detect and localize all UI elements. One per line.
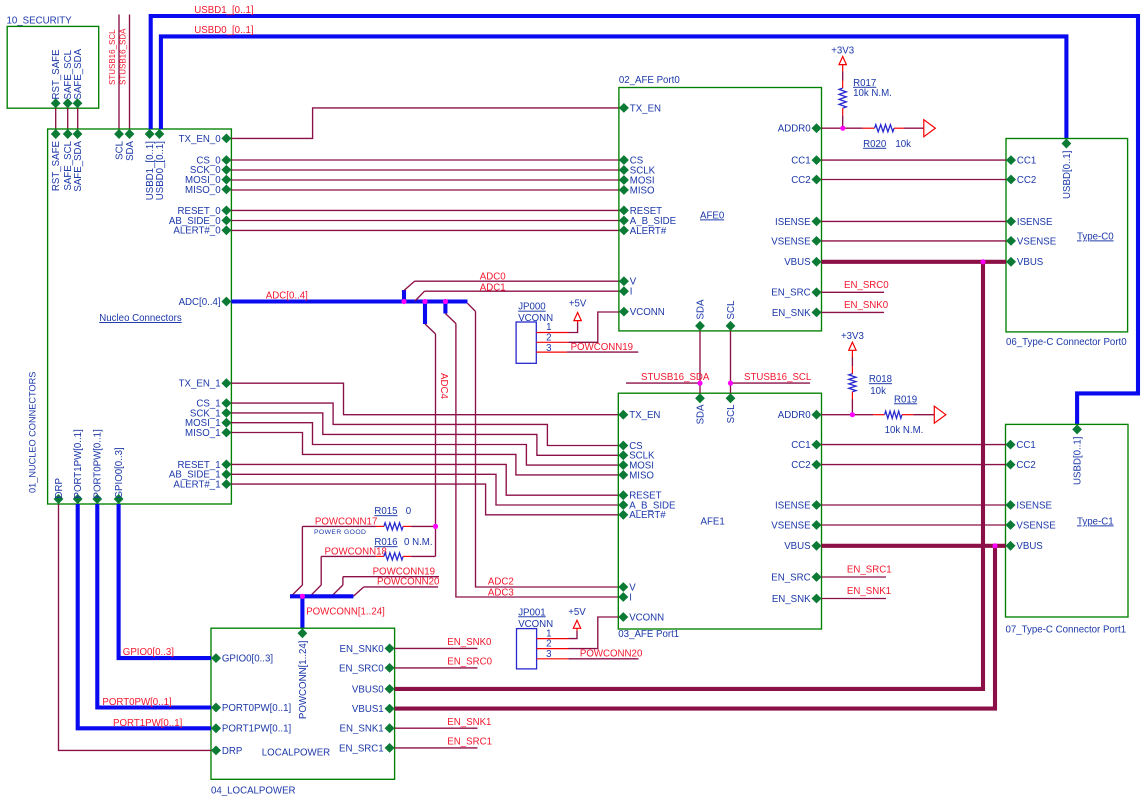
- pin name I (AFE1 left): [629, 592, 632, 603]
- svg-text:CC1: CC1: [791, 440, 810, 451]
- junction POWCONN bus: [300, 594, 305, 599]
- junction ADC4 on bus: [422, 299, 427, 304]
- pin 1 R015: [376, 525, 384, 527]
- pin name MOSI (AFE1 left): [629, 461, 654, 472]
- svg-text:USBD[0..1]: USBD[0..1]: [1062, 151, 1073, 199]
- bus entry ADC0: [404, 281, 415, 290]
- pin 2 R018: [851, 392, 853, 399]
- pin name AB_SIDE_1 (NUCLEO right): [169, 470, 221, 481]
- sheet pin RESET (AFE0 left): [619, 206, 629, 216]
- pin name ISENSE (AFE1 right): [775, 500, 811, 511]
- svg-text:GPIO0[0..3]: GPIO0[0..3]: [114, 447, 125, 498]
- sheet pin EN_SRC (AFE0 right): [812, 287, 822, 297]
- net label ADC1: [480, 283, 506, 294]
- pin name ALERT#_0 (NUCLEO right): [173, 226, 221, 237]
- sheet bus pin POWCONN[1..24] (LOCALPOWER top): [298, 628, 308, 638]
- value 10k (R018): [870, 386, 886, 397]
- wire AB_SIDE_0: [231, 220, 619, 222]
- value 10k (R020): [895, 139, 911, 150]
- svg-text:02_AFE Port0: 02_AFE Port0: [619, 75, 680, 86]
- bus label PORT1PW[0..1]: [113, 718, 182, 729]
- sheet pin MISO (AFE0 left): [619, 185, 629, 195]
- no-connect flag (R020): [924, 120, 936, 137]
- sheet name 10_SECURITY: [7, 15, 73, 26]
- pin name USBD1_[0..1] (NUCLEO top): [145, 141, 156, 200]
- pin name EN_SNK (AFE1 right): [772, 594, 811, 605]
- sheet pin TX_EN_0 (NUCLEO right): [221, 134, 231, 144]
- sheet pin SCL (AFE1 top): [726, 393, 736, 403]
- pin 2 R017: [842, 108, 844, 115]
- value 0 (R015): [406, 506, 412, 517]
- text POWER GOOD: [314, 529, 366, 536]
- net label POWCONN19 (JP000): [571, 342, 633, 353]
- sheet pin VSENSE (AFE0 right): [812, 236, 822, 246]
- sheet name 07_Type-C Connector Port1: [1006, 625, 1127, 636]
- pin name RESET (AFE1 left): [629, 491, 661, 502]
- sheet pin PORT1PW[0..1] (LOCALPOWER left): [211, 723, 221, 733]
- svg-text:VBUS: VBUS: [784, 257, 811, 268]
- power label +3V3 (R017): [831, 45, 854, 56]
- pin name USBD[0..1] (Type-C1 top): [1073, 437, 1084, 485]
- sheet pin V (AFE0 left): [619, 276, 629, 286]
- pin name CC1 (AFE1 right): [791, 440, 810, 451]
- sheet pin ADC[0..4] (NUCLEO right): [221, 297, 231, 307]
- pin 1 R020: [862, 127, 874, 129]
- bus stub ADC0: [402, 290, 406, 302]
- sheet pin CS (AFE1 left): [618, 441, 628, 451]
- svg-text:CC1: CC1: [1016, 440, 1035, 451]
- pin name VSENSE (AFE1 right): [771, 520, 811, 531]
- ref R020: [863, 139, 887, 150]
- svg-text:+5V: +5V: [569, 299, 587, 310]
- pin name PORT0PW[0..1] (LOCALPOWER left): [222, 703, 291, 714]
- ref JP001: [518, 607, 545, 618]
- sheet file Type-C1: [1077, 516, 1114, 527]
- pin name CC2 (AFE1 right): [791, 460, 810, 471]
- sheet pin VBUS (Type-C1 left): [1006, 541, 1016, 551]
- pin name TX_EN_0 (NUCLEO right): [179, 134, 222, 145]
- svg-text:POWCONN17: POWCONN17: [315, 516, 377, 527]
- wire VBUS1 (LOCALPOWER): [395, 546, 995, 709]
- svg-text:PORT1PW[0..1]: PORT1PW[0..1]: [222, 724, 291, 735]
- sheet pin SDA (AFE1 top): [695, 393, 705, 403]
- svg-text:Type-C1: Type-C1: [1077, 516, 1114, 527]
- ref JP000: [518, 302, 546, 313]
- svg-text:SCL: SCL: [726, 300, 737, 319]
- wire ADDR0 (AFE0): [822, 127, 863, 129]
- sheet pin CC1 (AFE1 right): [812, 440, 822, 450]
- svg-text:AFE0: AFE0: [700, 210, 725, 221]
- body JP001: [517, 629, 537, 669]
- bus POWCONN[1..24] drop: [300, 596, 304, 628]
- wire EN_SRC1 (LOCALPOWER): [395, 747, 478, 749]
- wire STUSB16_SDA label stub: [626, 382, 700, 384]
- junction ADDR0/R017/R020: [840, 126, 845, 131]
- svg-text:VBUS: VBUS: [1017, 257, 1044, 268]
- pin name VCONN (AFE0 left): [630, 307, 665, 318]
- svg-text:CC2: CC2: [791, 175, 810, 186]
- net label POWCONN20 (JP001): [580, 649, 643, 660]
- svg-text:VBUS: VBUS: [1016, 541, 1043, 552]
- svg-text:ISENSE: ISENSE: [775, 500, 811, 511]
- wire POWCONN20 stub: [364, 586, 438, 588]
- svg-text:VBUS1: VBUS1: [352, 704, 384, 715]
- sheet pin CC2 (Type-C0 left): [1006, 175, 1016, 185]
- pin name EN_SRC1 (LOCALPOWER right): [339, 743, 384, 754]
- svg-text:ADDR0: ADDR0: [778, 410, 811, 421]
- power arrow +3V3 (R018): [849, 342, 856, 350]
- wire DRP: [59, 504, 212, 750]
- junction VBUS1: [992, 543, 997, 548]
- pin name PORT1PW[0..1] (LOCALPOWER left): [222, 724, 291, 735]
- wire SCK_0: [231, 169, 619, 171]
- sheet pin ALERT# (AFE1 left): [618, 510, 628, 520]
- wire EN_SRC (AFE0): [822, 291, 885, 293]
- pin number 2 (JP000): [546, 332, 551, 343]
- svg-text:VBUS0: VBUS0: [352, 684, 384, 695]
- net label EN_SRC1 (AFE1): [847, 565, 892, 576]
- bus entry POWCONN18: [310, 585, 321, 596]
- power pin +3V3 (R017): [842, 65, 844, 72]
- wire POWCONN18 drop: [320, 556, 322, 585]
- junction STUSB16_SCL: [728, 381, 733, 386]
- svg-text:MISO_0: MISO_0: [185, 185, 221, 196]
- svg-text:EN_SRC1: EN_SRC1: [339, 743, 384, 754]
- bus GPIO0[0..3]: [119, 504, 211, 658]
- sheet pin EN_SRC (AFE1 right): [812, 572, 822, 582]
- pin name DRP (NUCLEO bottom): [54, 478, 65, 498]
- svg-text:10_SECURITY: 10_SECURITY: [7, 15, 73, 26]
- bus entry POWCONN17: [291, 585, 302, 596]
- ref R016: [374, 537, 397, 548]
- wire TX_EN_0: [231, 108, 619, 138]
- svg-text:RST_SAFE: RST_SAFE: [51, 140, 62, 191]
- pin name VBUS1 (LOCALPOWER right): [352, 704, 384, 715]
- svg-text:04_LOCALPOWER: 04_LOCALPOWER: [211, 786, 296, 797]
- pin name V (AFE1 left): [629, 582, 636, 593]
- pin name V (AFE0 left): [630, 277, 637, 288]
- svg-text:ADC0: ADC0: [480, 272, 506, 283]
- pin name RESET_0 (NUCLEO right): [178, 206, 222, 217]
- sheet pin VCONN (AFE1 left): [618, 612, 628, 622]
- svg-text:DRP: DRP: [222, 746, 242, 757]
- pin name EN_SRC (AFE0 right): [771, 288, 810, 299]
- wire +3V3 to R017: [842, 72, 844, 81]
- svg-text:ADC2: ADC2: [488, 577, 514, 588]
- wire JP000-3 POWCONN19: [567, 351, 638, 353]
- ref R018: [869, 374, 892, 385]
- svg-text:VSENSE: VSENSE: [771, 520, 811, 531]
- value 10k N.M. (R019): [885, 425, 924, 436]
- net label STUSB16_SDA: [119, 28, 128, 85]
- pin number 2 (JP001): [546, 639, 551, 650]
- wire SDA between AFE0/AFE1: [699, 331, 701, 393]
- svg-text:01_NUCLEO CONNECTORS: 01_NUCLEO CONNECTORS: [28, 372, 38, 493]
- power arrow +5V (JP001): [573, 620, 580, 628]
- wire ISENSE (port0): [822, 220, 1007, 222]
- svg-text:SAFE_SDA: SAFE_SDA: [73, 140, 84, 191]
- pin name SCLK (AFE0 left): [630, 165, 656, 176]
- pin name EN_SRC0 (LOCALPOWER right): [339, 663, 384, 674]
- sheet pin SDA (NUCLEO top): [125, 129, 135, 139]
- pin name VSENSE (Type-C1 left): [1016, 520, 1056, 531]
- pin name A_B_SIDE (AFE1 left): [629, 500, 676, 511]
- pin name EN_SNK1 (LOCALPOWER right): [340, 724, 384, 735]
- wire R015 to ADC4: [411, 525, 435, 527]
- wire ADC3: [456, 324, 618, 598]
- wire POWCONN19 stub: [343, 576, 439, 578]
- pin 2 R020: [894, 127, 904, 129]
- svg-text:DRP: DRP: [54, 478, 65, 498]
- wire ADC4 vertical: [435, 334, 437, 557]
- net label EN_SNK1 (AFE1): [847, 586, 891, 597]
- pin name ADDR0 (AFE0 right): [778, 124, 811, 135]
- svg-text:R016: R016: [374, 537, 397, 548]
- wire VSENSE (port0): [822, 240, 1007, 242]
- value VCONN (JP001): [518, 619, 553, 630]
- wire CS_1: [231, 403, 618, 445]
- svg-text:TX_EN_0: TX_EN_0: [179, 134, 222, 145]
- pin name TX_EN (AFE1 left): [629, 410, 660, 421]
- bus USBD1_[0..1]: [151, 16, 1138, 424]
- sheet pin MISO_1 (NUCLEO right): [221, 428, 231, 438]
- net label POWCONN18: [325, 546, 387, 557]
- bus label USBD1_[0..1]: [194, 5, 253, 16]
- svg-text:10k N.M.: 10k N.M.: [853, 88, 892, 99]
- svg-text:PORT0PW[0..1]: PORT0PW[0..1]: [102, 697, 171, 708]
- pin 1 JP000: [536, 332, 568, 334]
- sheet pin VBUS (AFE0 right): [812, 257, 822, 267]
- svg-text:EN_SNK1: EN_SNK1: [847, 586, 891, 597]
- bus entry ADC4: [425, 324, 436, 334]
- svg-text:EN_SRC: EN_SRC: [771, 288, 810, 299]
- svg-text:R019: R019: [894, 394, 917, 405]
- bus entry POWCONN19: [332, 585, 343, 596]
- sheet pin EN_SRC1 (LOCALPOWER right): [385, 743, 395, 753]
- pin name RST_SAFE (NUCLEO top): [51, 140, 62, 191]
- pin name VBUS0 (LOCALPOWER right): [352, 684, 384, 695]
- bus label POWCONN[1..24]: [306, 607, 385, 618]
- sheet pin ADDR0 (AFE0 right): [812, 123, 822, 133]
- junction ADC0 on bus: [401, 299, 406, 304]
- net label EN_SRC1 (LOCALPOWER): [447, 737, 492, 748]
- sheet file Nucleo Connectors: [99, 313, 182, 324]
- svg-text:EN_SRC1: EN_SRC1: [847, 565, 892, 576]
- sheet pin ISENSE (Type-C0 left): [1006, 217, 1016, 227]
- wire JP000-2 to VCONN (AFE0): [569, 312, 619, 342]
- svg-text:Type-C0: Type-C0: [1077, 231, 1114, 242]
- pin name RST_SAFE (SECURITY): [51, 49, 62, 100]
- body JP000: [516, 322, 536, 363]
- svg-text:MISO: MISO: [629, 470, 654, 481]
- wire CC1 (port0): [822, 159, 1007, 161]
- svg-text:+3V3: +3V3: [841, 331, 864, 342]
- wire SCL between AFE0/AFE1: [730, 331, 732, 393]
- svg-text:CC2: CC2: [1017, 175, 1036, 186]
- svg-text:ADC[0..4]: ADC[0..4]: [179, 297, 221, 308]
- pin name CS_1 (NUCLEO right): [196, 399, 220, 410]
- svg-text:SDA: SDA: [125, 140, 136, 160]
- pin name ADDR0 (AFE1 right): [778, 410, 811, 421]
- pin name AB_SIDE_0 (NUCLEO right): [169, 216, 221, 227]
- wire VBUS (port1): [822, 544, 1006, 548]
- svg-text:R015: R015: [374, 506, 397, 517]
- wire ADC2: [476, 311, 619, 587]
- sheet pin SCL (NUCLEO top): [114, 129, 124, 139]
- sheet bus pin USBD0_[0..1] (NUCLEO top): [155, 129, 165, 139]
- svg-text:ADC1: ADC1: [480, 283, 506, 294]
- pin name EN_SRC (AFE1 right): [771, 572, 810, 583]
- sheet pin TX_EN (AFE1 left): [618, 410, 628, 420]
- pin name MOSI_0 (NUCLEO right): [185, 175, 221, 186]
- sheet box 04_LOCALPOWER: [211, 628, 395, 779]
- svg-text:POWCONN[1..24]: POWCONN[1..24]: [298, 641, 309, 720]
- pin name CS (AFE1 left): [629, 441, 643, 452]
- wire JP000-1 to +5V: [569, 323, 578, 333]
- pin name TX_EN (AFE0 left): [630, 103, 661, 114]
- sheet pin VSENSE (AFE1 right): [812, 520, 822, 530]
- svg-text:03_AFE Port1: 03_AFE Port1: [618, 629, 679, 640]
- sheet pin CC2 (Type-C1 left): [1006, 460, 1016, 470]
- net label EN_SRC0 (AFE0): [844, 280, 889, 291]
- wire ALERT#_0: [231, 229, 619, 231]
- svg-text:POWCONN20: POWCONN20: [377, 577, 440, 588]
- svg-text:POWCONN20: POWCONN20: [580, 649, 643, 660]
- wire POWCONN17: [302, 525, 376, 527]
- svg-text:10k: 10k: [895, 139, 911, 150]
- svg-text:VSENSE: VSENSE: [1017, 236, 1057, 247]
- wire JP001-1 to +5V: [569, 631, 578, 639]
- pin name SCL (AFE1 top): [726, 404, 737, 423]
- svg-text:0: 0: [406, 506, 412, 517]
- wire STUSB16_SDA vertical: [129, 15, 131, 130]
- svg-text:VCONN: VCONN: [629, 612, 664, 623]
- svg-text:ISENSE: ISENSE: [775, 217, 811, 228]
- bus POWCONN[1..24]: [290, 594, 353, 598]
- power label +5V (JP001): [568, 607, 586, 618]
- sheet pin A_B_SIDE (AFE1 left): [618, 500, 628, 510]
- svg-text:SDA: SDA: [695, 404, 706, 424]
- sheet name 04_LOCALPOWER: [211, 786, 296, 797]
- power label +3V3 (R018): [841, 331, 864, 342]
- wire STUSB16_SCL label stub: [731, 382, 811, 384]
- pin 1 R016: [376, 555, 384, 557]
- svg-text:USBD0_[0..1]: USBD0_[0..1]: [194, 25, 253, 36]
- bus PORT1PW[0..1]: [78, 504, 211, 728]
- svg-text:07_Type-C Connector Port1: 07_Type-C Connector Port1: [1006, 625, 1127, 636]
- svg-text:SAFE_SDA: SAFE_SDA: [73, 48, 84, 99]
- wire ALERT#_1: [231, 484, 618, 515]
- wire EN_SRC (AFE1): [822, 576, 887, 578]
- sheet file Type-C0: [1077, 231, 1114, 242]
- sheet name 06_Type-C Connector Port0: [1006, 337, 1127, 348]
- pin name I (AFE0 left): [630, 287, 633, 298]
- pin name SCL (NUCLEO top): [114, 140, 125, 159]
- sheet pin EN_SRC0 (LOCALPOWER right): [385, 663, 395, 673]
- bus entry ADC3: [445, 314, 456, 324]
- svg-text:STUSB16_SCL: STUSB16_SCL: [108, 29, 117, 85]
- pin name ISENSE (Type-C0 left): [1017, 217, 1053, 228]
- sheet pin ISENSE (Type-C1 left): [1006, 500, 1016, 510]
- svg-text:TX_EN: TX_EN: [630, 103, 661, 114]
- wire POWCONN17 drop: [301, 526, 303, 585]
- power arrow +3V3 (R017): [839, 57, 846, 65]
- pin name POWCONN[1..24] (LOCALPOWER top): [298, 641, 309, 720]
- pin name ISENSE (AFE0 right): [775, 217, 811, 228]
- power pin +3V3 (R018): [851, 350, 853, 357]
- sheet pin DRP (LOCALPOWER left): [211, 746, 221, 756]
- pin name PORT1PW[0..1] (NUCLEO bottom): [73, 429, 84, 498]
- wire JP001-3 POWCONN20: [568, 658, 638, 660]
- svg-text:PORT0PW[0..1]: PORT0PW[0..1]: [222, 703, 291, 714]
- sheet pin CC1 (AFE0 right): [812, 155, 822, 165]
- svg-text:SDA: SDA: [695, 299, 706, 319]
- wire MOSI_1: [231, 423, 618, 465]
- bus ADC[0..4]: [231, 299, 467, 303]
- wire R020 to open flag: [904, 127, 923, 129]
- svg-text:EN_SNK0: EN_SNK0: [340, 644, 385, 655]
- sheet pin VCONN (AFE0 left): [619, 307, 629, 317]
- pin number 1 (JP000): [546, 322, 551, 333]
- pin name ALERT# (AFE0 left): [630, 226, 667, 237]
- net label POWCONN17: [315, 516, 377, 527]
- svg-text:AFE1: AFE1: [701, 517, 725, 528]
- sheet pin CS_0 (NUCLEO right): [221, 155, 231, 165]
- bus USBD0_[0..1]: [161, 36, 1067, 138]
- svg-text:ADC[0..4]: ADC[0..4]: [266, 291, 308, 302]
- svg-text:EN_SNK1: EN_SNK1: [340, 724, 384, 735]
- wire R016 to ADC4: [411, 555, 435, 557]
- pin name PORT0PW[0..1] (NUCLEO bottom): [93, 429, 104, 498]
- wire STUSB16_SCL vertical: [118, 15, 120, 130]
- net label POWCONN20: [377, 577, 440, 588]
- pin name VBUS (AFE1 right): [784, 541, 811, 552]
- pin name GPIO0[0..3] (LOCALPOWER left): [222, 654, 273, 665]
- wire EN_SNK (AFE1): [822, 598, 887, 600]
- svg-text:CC2: CC2: [1016, 460, 1035, 471]
- sheet name 03_AFE Port1: [618, 629, 679, 640]
- sheet pin V (AFE1 left): [618, 582, 628, 592]
- sheet pin AB_SIDE_1 (NUCLEO right): [221, 469, 231, 479]
- pin name SAFE_SDA (SECURITY): [73, 48, 84, 99]
- sheet box 01_NUCLEO CONNECTORS: [48, 129, 232, 504]
- sheet pin ISENSE (AFE1 right): [812, 500, 822, 510]
- junction ADC3 on bus: [443, 299, 448, 304]
- junction ADC4/R015: [433, 524, 438, 529]
- sheet bus pin USBD1_[0..1] (NUCLEO top): [145, 129, 155, 139]
- pin name EN_SNK0 (LOCALPOWER right): [340, 644, 385, 655]
- sheet box 06_Type-C Connector Port0: [1006, 139, 1128, 332]
- svg-text:CC2: CC2: [791, 460, 810, 471]
- svg-text:EN_SRC0: EN_SRC0: [447, 657, 492, 668]
- wire JP001-2 to VCONN (AFE1): [569, 617, 619, 649]
- sheet pin MOSI (AFE0 left): [619, 175, 629, 185]
- svg-text:ISENSE: ISENSE: [1016, 500, 1052, 511]
- wire RST_SAFE: [55, 108, 57, 129]
- sheet pin SCL (AFE0 bottom): [726, 321, 736, 331]
- body R017: [839, 88, 846, 108]
- sheet pin ALERT# (AFE0 left): [619, 226, 629, 236]
- value VCONN (JP000): [518, 313, 553, 324]
- pin 2 R016: [403, 555, 411, 557]
- svg-text:JP001: JP001: [518, 607, 545, 618]
- net label STUSB16_SDA: [641, 372, 710, 383]
- svg-text:JP000: JP000: [518, 302, 546, 313]
- pin name VCONN (AFE1 left): [629, 612, 664, 623]
- sheet pin I (AFE1 left): [618, 592, 628, 602]
- wire VBUS (port0): [822, 260, 1007, 264]
- sheet pin SDA (AFE0 bottom): [695, 321, 705, 331]
